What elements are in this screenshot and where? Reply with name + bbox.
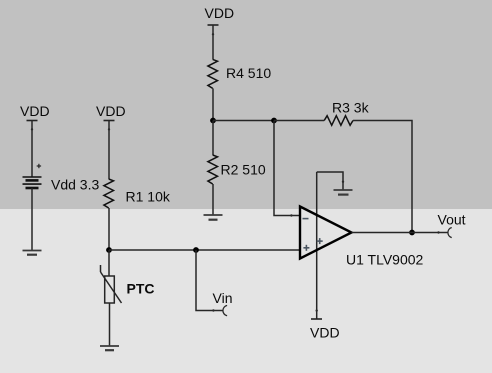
wire (power pin line through op-amp) [316, 172, 318, 319]
svg-text:Vin: Vin [213, 290, 233, 306]
op-amp U1 TLV9002 [300, 207, 424, 268]
wire [213, 120, 274, 122]
power VDD symbol (R1 branch) [96, 103, 126, 121]
power VDD symbol (R4 branch) [205, 5, 235, 25]
node junction R1/PTC [106, 247, 112, 253]
svg-text:VDD: VDD [205, 5, 235, 21]
wire [212, 184, 214, 215]
svg-text:VDD: VDD [20, 103, 50, 119]
wire [274, 120, 324, 122]
port Vout [438, 212, 466, 238]
svg-text:U1 TLV9002: U1 TLV9002 [346, 252, 424, 268]
ground [204, 215, 223, 220]
svg-text:Vdd 3.3: Vdd 3.3 [51, 177, 99, 193]
wire [31, 121, 33, 178]
node junction R4/R2 [210, 118, 216, 124]
svg-text:PTC: PTC [127, 281, 155, 297]
resistor R1 10k [104, 179, 171, 208]
power VDD symbol (op-amp V+ pin) [310, 319, 340, 341]
pin marker dots [31, 33, 440, 312]
svg-text:Vout: Vout [438, 212, 466, 228]
battery V1 Vdd 3.3 [23, 164, 100, 193]
wire (op-amp output) [352, 232, 449, 234]
resistor R3 3k [324, 100, 369, 126]
wire [212, 121, 214, 156]
node junction feedback [271, 118, 277, 124]
wire [212, 25, 214, 59]
wire [109, 303, 111, 346]
svg-text:VDD: VDD [96, 103, 126, 119]
wire [353, 121, 412, 233]
wire [108, 208, 110, 250]
wire [108, 121, 110, 180]
svg-text:R1 10k: R1 10k [126, 189, 171, 205]
port Vin [213, 290, 233, 316]
resistor R2 510 [208, 155, 266, 184]
node junction output/feedback [409, 230, 415, 236]
ground [334, 190, 353, 195]
svg-text:R2 510: R2 510 [221, 162, 266, 178]
wire (op-amp V- pin to ground) [317, 172, 343, 190]
wire (feedback node to inverting input) [274, 121, 300, 216]
wire [108, 250, 110, 276]
resistor R4 510 [208, 59, 271, 88]
node junction Vin tap [193, 247, 199, 253]
wire [212, 88, 214, 120]
wire (main node to op-amp + input) [109, 249, 300, 251]
wire [196, 250, 223, 311]
power VDD symbol (battery branch) [20, 103, 50, 121]
ground [100, 346, 119, 350]
wire [31, 188, 33, 250]
svg-text:R4 510: R4 510 [226, 65, 271, 81]
svg-text:VDD: VDD [310, 325, 340, 341]
svg-text:R3 3k: R3 3k [332, 100, 370, 116]
ground [23, 251, 42, 255]
thermistor PTC [101, 265, 155, 303]
